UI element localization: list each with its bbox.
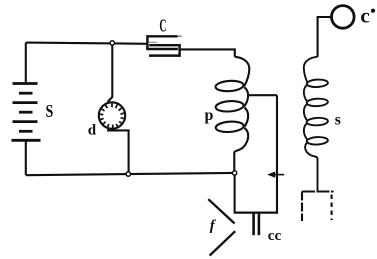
interrupter wheel d: [99, 102, 125, 128]
svg-text:c: c: [360, 3, 369, 27]
spark gap f line upper: [208, 199, 234, 223]
wire right vertical branch: [276, 95, 278, 212]
node junction bottom left: [126, 172, 130, 176]
earth plate right: [331, 195, 333, 221]
wire bottom of cc box: [234, 212, 278, 214]
coil s: [304, 57, 328, 159]
wire wheel to bottom wire: [107, 130, 129, 173]
node junction bottom right: [232, 171, 236, 175]
svg-text:p: p: [205, 107, 214, 124]
wire tap from coil to right branch: [249, 94, 277, 96]
svg-text:cc: cc: [268, 228, 282, 244]
wire coil p bottom: [233, 152, 235, 172]
arrow on right branch: [267, 172, 284, 178]
svg-text:s: s: [335, 111, 341, 128]
wire junction to interrupter: [108, 45, 113, 102]
wire coil s to earth: [317, 158, 319, 192]
antenna ball c': [332, 6, 355, 29]
wire bottom horizontal: [26, 173, 235, 175]
wire top horizontal: [26, 43, 148, 44]
svg-text:d: d: [88, 123, 97, 139]
node junction top: [110, 41, 114, 45]
wire ball to coil s: [318, 17, 332, 57]
capacitor C plate B: [149, 45, 180, 55]
wire left side of cc box: [234, 175, 236, 213]
wire left vertical upper: [25, 43, 27, 84]
svg-text:C: C: [159, 15, 166, 35]
capacitor C plate A: [147, 36, 177, 49]
earth plate left: [301, 192, 303, 222]
svg-text:S: S: [46, 101, 54, 121]
wire capacitor to coil p: [180, 49, 235, 56]
battery S: [12, 84, 41, 141]
capacitor C plate A faint edges: [178, 35, 182, 37]
capacitor cc plates: [252, 214, 255, 236]
coil p: [215, 57, 249, 152]
wire left vertical lower: [25, 140, 27, 175]
spark gap f line lower: [210, 231, 236, 255]
earth plate top: [302, 190, 334, 192]
